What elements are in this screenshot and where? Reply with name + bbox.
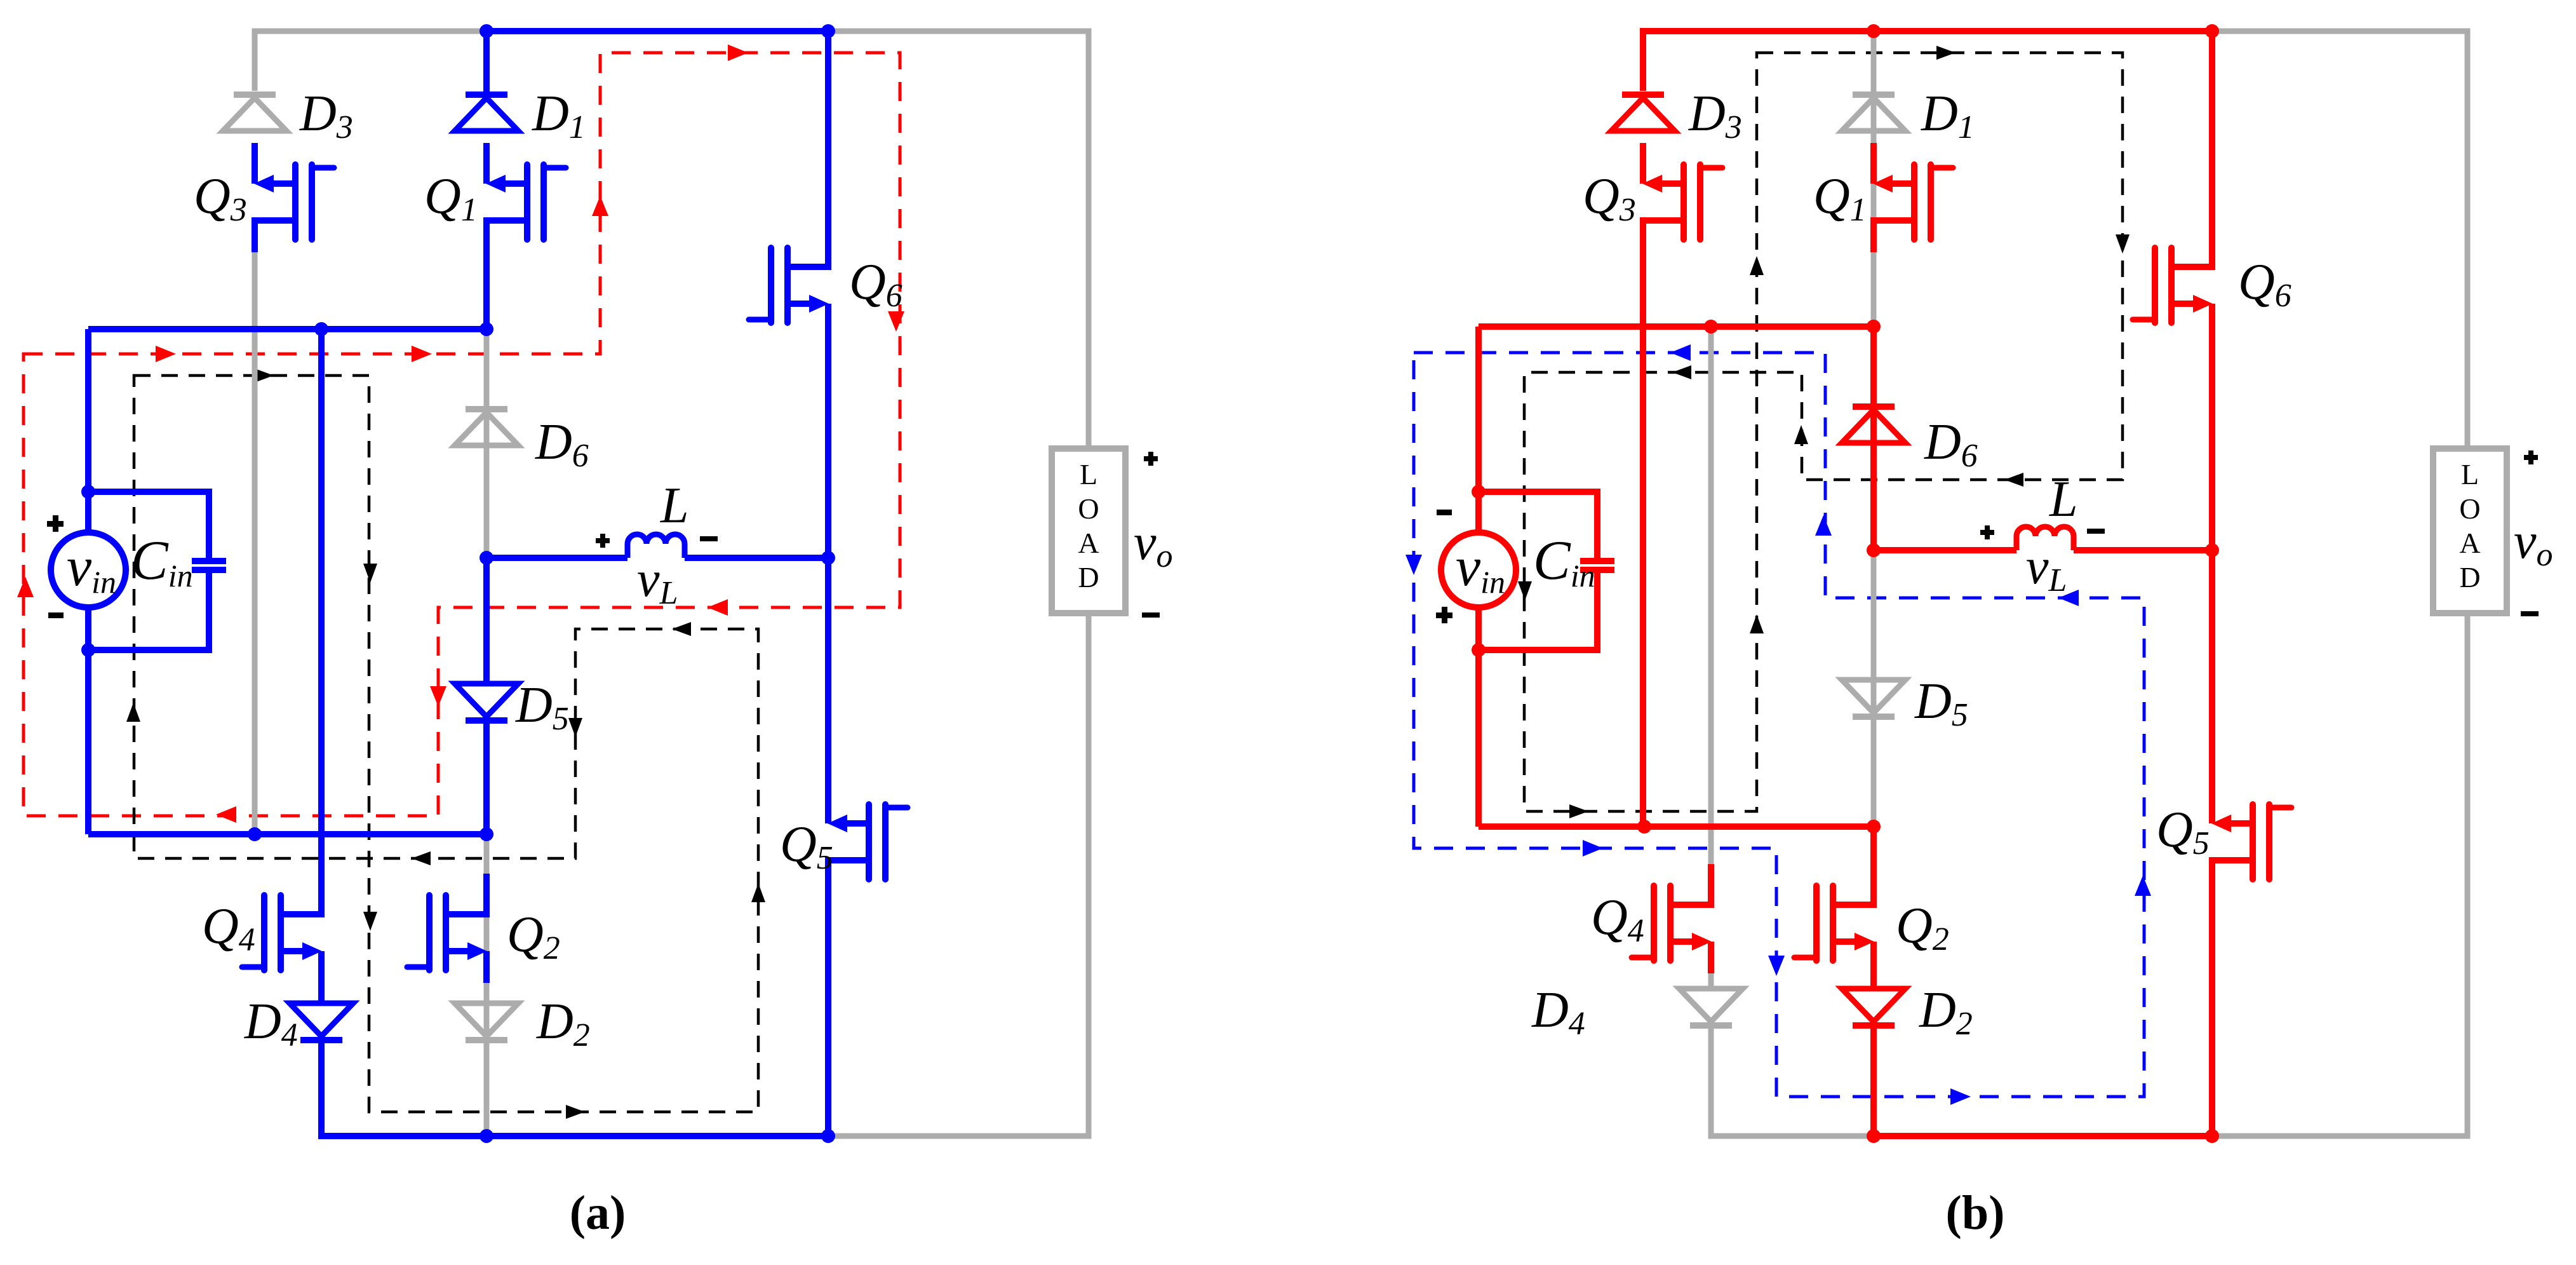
wire: gray top rail right segment to LOAD (a) xyxy=(828,31,1089,449)
diode D1 (b, inactive gray) xyxy=(1853,91,1895,98)
wire: Q6 source to L node (b) xyxy=(2209,304,2215,550)
wire: Q6 source to L node (a) xyxy=(825,304,831,558)
wire: v_in positive lead (a) xyxy=(85,329,91,532)
svg-text:D: D xyxy=(2459,561,2480,593)
node: C_in bottom junction (b) xyxy=(1472,643,1486,657)
polarity + of v_o (a) xyxy=(1144,452,1158,466)
wire: red upper bus node A (b) xyxy=(1479,323,1874,330)
wire: gray top rail right segment to LOAD (b) xyxy=(2212,31,2467,449)
transistor Q3 (b) xyxy=(1640,143,1646,184)
wire: Q2 drain from lower bus (b) xyxy=(1870,827,1877,868)
svg-text:(a): (a) xyxy=(570,1186,626,1240)
wire: gray LOAD bottom return rail (a) xyxy=(828,613,1089,1136)
wire: red top rail with corner to D3 (b) xyxy=(1643,31,2212,91)
transistor Q1 (a) xyxy=(483,143,490,184)
node: C_in bottom junction (a) xyxy=(81,643,95,657)
wire: L branch left (b) xyxy=(1874,547,2016,553)
wire: Q3 source to lower bus (b) xyxy=(1640,220,1646,827)
LOAD box (a) xyxy=(1052,449,1125,613)
node: Q6 top rail junction (b) xyxy=(2205,24,2219,38)
arrow: loop2 down beside Q4 lower xyxy=(363,912,377,931)
svg-text:O: O xyxy=(2459,492,2480,525)
svg-text:O: O xyxy=(1078,492,1099,525)
svg-text:L: L xyxy=(1080,458,1097,490)
wire: L branch left (a) xyxy=(486,555,627,561)
wire: gray Q4 drain from node A (b) xyxy=(1708,327,1714,868)
node: Q4 drain on bus (a) xyxy=(314,322,328,336)
diode D2 (b) xyxy=(1842,989,1905,1022)
arrow: loop1 right along top rail xyxy=(728,44,748,61)
arrow: loop4 right along lower bus xyxy=(1569,804,1588,818)
arrow: loop2 down beside D5 xyxy=(568,718,582,737)
current loop 1 (a): red dashed input-power path v_in-Q1-Q6-L-D5 xyxy=(23,53,900,816)
node: Q3 leg on lower bus (b) xyxy=(1637,820,1651,834)
polarity - of v_L (b) xyxy=(2087,529,2105,534)
node: L left junction (a) xyxy=(480,551,493,565)
diode D6 (a, inactive gray) xyxy=(466,406,507,412)
arrow: loop2 up beside C_in xyxy=(126,703,140,722)
arrow: loop4 right along top rail xyxy=(1936,46,1955,60)
node A: bus end at D6 (b) xyxy=(1867,320,1881,334)
wire: C_in bottom branch (a) xyxy=(88,572,209,650)
capacitor C_in plates (b) xyxy=(1580,558,1614,564)
wire: Q4 drain from node A (a) xyxy=(318,329,325,877)
transistor Q2 (a) xyxy=(483,874,490,914)
arrow: loop1 up beside Q1 xyxy=(592,196,608,216)
arrow: loop4 up toward D6 xyxy=(1794,425,1808,444)
polarity + of v_in (a) xyxy=(47,515,64,532)
diode D1 (a) xyxy=(466,91,507,98)
wire: Q5 drain from L node (b) xyxy=(2209,550,2215,787)
wire: Q6 drain from top rail (b) xyxy=(2209,31,2215,226)
wire: C_in top branch (a) xyxy=(88,492,209,560)
voltage source v_in (b) xyxy=(1441,532,1516,607)
arrow: loop3 right along lower bus xyxy=(1583,840,1603,856)
node: D2 leg bottom rail (a) xyxy=(480,1129,493,1143)
wire: v_in negative lead (a) xyxy=(85,607,91,834)
transistor Q4 (a) xyxy=(318,874,325,914)
arrow: loop2 right along bottom rail xyxy=(566,1105,585,1119)
arrow: loop1 right on node-A bus xyxy=(156,346,176,362)
svg-text:L: L xyxy=(660,478,689,534)
node: Q4 drain on bus (b) xyxy=(1704,320,1718,334)
wire: Q5 source to bottom rail (b) xyxy=(2209,860,2215,1136)
wire: gray top rail left segment with corner to D3 (a) xyxy=(255,31,486,91)
arrow: loop2 left along lower bus xyxy=(412,851,431,865)
wire: gray D1 branch top rail to node A (b) xyxy=(1871,31,1877,327)
wire: Q1 source to node A (a) xyxy=(483,220,490,329)
polarity + of v_L (a) xyxy=(596,534,610,548)
node: D1 top rail junction (a) xyxy=(480,24,493,38)
wire: red D6 branch node A to L node (b) xyxy=(1870,327,1877,550)
arrow: loop4 up beside Q3 upper xyxy=(1750,256,1764,275)
transistor Q3 (a) xyxy=(252,143,258,184)
inductor L (a) xyxy=(627,534,685,558)
wire: gray D6 branch Q1-node to L-node (a) xyxy=(484,329,490,558)
wire: blue upper bus node A (a) xyxy=(88,326,486,332)
current loop 2 (a): black dashed freewheel path Cin-Q4-D4-Q5-D5 xyxy=(134,375,758,1112)
wire: C_in bottom branch (b) xyxy=(1479,572,1597,650)
arrow: loop2 left under L xyxy=(672,622,691,636)
arrow: loop3 left under L xyxy=(2058,590,2079,606)
arrow: loop4 down beside Q6 xyxy=(2116,234,2130,254)
node: Q5 bottom rail junction (b) xyxy=(2205,1129,2219,1143)
capacitor C_in plates (a) xyxy=(192,558,226,564)
wire: gray Q3 source to lower bus (a) xyxy=(252,220,258,834)
arrow: loop1 down beside Q6 xyxy=(888,311,904,332)
voltage source v_in (a) xyxy=(51,532,126,607)
polarity + of v_in (b) xyxy=(1436,607,1452,623)
node: Q3 leg on lower bus (a) xyxy=(248,827,262,841)
wire: gray Q4 source to D4 (b) xyxy=(1708,962,1714,989)
node: L right junction (b) xyxy=(2205,543,2219,557)
arrow: loop2 right from Cin xyxy=(255,369,274,382)
diode D5 (b, inactive gray) xyxy=(1842,680,1905,713)
arrow: loop1 right toward Q1 xyxy=(412,346,432,362)
polarity + of v_o (b) xyxy=(2524,450,2538,464)
arrow: loop3 up beside Q5 xyxy=(2135,876,2151,896)
polarity - of v_in (a) xyxy=(48,612,64,618)
wire: gray D4 to bottom rail corner (b) xyxy=(1711,1025,1874,1136)
transistor Q5 (b) xyxy=(2209,783,2215,823)
svg-text:A: A xyxy=(1078,527,1099,559)
arrow: loop4 left above L xyxy=(2004,473,2023,487)
diode D5 (a) xyxy=(455,684,518,717)
diode D6 (b) xyxy=(1853,403,1895,410)
current loop 4 (b): black dashed input path v_in-Q3-D6 charge xyxy=(1524,53,2123,811)
svg-text:L: L xyxy=(2461,458,2479,490)
current loop 3 (b): blue dashed L discharge path L-D6-Q2-D2 xyxy=(1414,353,2144,1097)
svg-text:(b): (b) xyxy=(1946,1186,2005,1240)
arrow: loop3 left toward v_in xyxy=(1670,344,1691,361)
transistor Q6 (a) xyxy=(825,226,831,267)
wire: Q4 source to D4 (a) xyxy=(318,951,325,1003)
wire: gray LOAD bottom return rail (b) xyxy=(2212,613,2467,1136)
wire: Q5 source to bottom rail (a) xyxy=(825,860,831,1136)
diode D4 (a) xyxy=(290,1003,353,1036)
node: Q5 bottom rail junction (a) xyxy=(821,1129,835,1143)
polarity - of v_o (b) xyxy=(2521,611,2539,616)
wire: Q5 drain from L node (a) xyxy=(825,558,831,787)
transistor Q2 (b) xyxy=(1870,864,1877,905)
arrow: loop4 down beside C_in xyxy=(1518,581,1532,600)
arrow: loop3 right along bottom rail xyxy=(1950,1088,1971,1105)
node A: Q1 source bus end (a) xyxy=(480,322,493,336)
wire: Q2 source to D2 (b) xyxy=(1870,942,1877,989)
wire: blue top rail D1 to Q6 (a) xyxy=(486,28,828,34)
node: L left junction (b) xyxy=(1867,543,1881,557)
wire: D5 branch from L node (a) xyxy=(483,558,490,684)
wire: L branch right (a) xyxy=(685,555,828,561)
LOAD box (b) xyxy=(2433,449,2507,613)
arrow: loop1 left along lower bus xyxy=(216,806,236,823)
diode D2 (a, inactive gray) xyxy=(455,1003,518,1036)
wire: D4 to bottom rail corner (a) xyxy=(321,1040,828,1136)
diode D3 (b) xyxy=(1622,91,1664,98)
wire: D5 cathode to lower bus (a) xyxy=(483,720,490,834)
polarity - of v_o (a) xyxy=(1142,612,1160,618)
wire: v_in top lead (b) xyxy=(1475,327,1482,532)
svg-text:D: D xyxy=(1078,561,1099,593)
arrow: loop3 down beside D2 xyxy=(1768,956,1785,976)
arrow: loop1 left under L xyxy=(708,599,728,616)
node: C_in top junction (a) xyxy=(81,485,95,499)
node: D2 leg bottom rail (b) xyxy=(1867,1129,1881,1143)
wire: C_in top branch (b) xyxy=(1479,492,1597,560)
wire: L branch right (b) xyxy=(2074,547,2212,553)
transistor Q5 (a) xyxy=(825,783,831,823)
diode D4 (b, inactive gray) xyxy=(1679,989,1743,1022)
wire: red lower bus (b) xyxy=(1479,823,1874,830)
arrow: loop2 up beside Q5 xyxy=(751,883,765,902)
node: D5 lower bus end (a) xyxy=(480,827,493,841)
svg-text:A: A xyxy=(2459,527,2480,559)
wire: Q6 drain from top rail (a) xyxy=(825,31,831,226)
wire: red bottom rail (b) xyxy=(1874,1133,2212,1139)
wire: gray Q2/D2 branch lower bus to bottom rail (a) xyxy=(484,834,490,1136)
arrow: loop2 down beside Q4 upper xyxy=(363,564,377,583)
arrow: loop1 down beside D5 xyxy=(430,686,446,707)
wire: D2 to bottom rail (b) xyxy=(1870,1025,1877,1136)
node: D1 top rail junction (b) xyxy=(1867,24,1881,38)
svg-text:L: L xyxy=(2049,471,2078,527)
node: C_in top junction (b) xyxy=(1472,485,1486,499)
transistor Q4 (b) xyxy=(1708,864,1714,905)
arrow: loop4 up beside Q3 lower xyxy=(1750,614,1764,633)
polarity - of v_in (b) xyxy=(1437,510,1452,515)
arrow: loop3 down beside v_in xyxy=(1405,555,1422,575)
wire: v_in bottom lead (b) xyxy=(1475,607,1482,827)
arrow: loop3 up beside D6 xyxy=(1815,515,1832,536)
transistor Q6 (b) xyxy=(2209,226,2215,267)
transistor Q1 (b) xyxy=(1870,143,1877,184)
diode D3 (a, inactive gray) xyxy=(234,91,276,98)
wire: blue lower bus (a) xyxy=(88,831,486,837)
node: Q2 lower bus end (b) xyxy=(1867,820,1881,834)
wire: blue D1 drain lead from top rail (a) xyxy=(483,31,490,92)
node: Q6 top rail junction (a) xyxy=(821,24,835,38)
inductor L (b) xyxy=(2016,527,2074,550)
wire: gray D5 branch L node to lower bus (b) xyxy=(1871,550,1877,827)
arrow: loop1 up to v_in xyxy=(17,577,34,597)
polarity + of v_L (b) xyxy=(1980,525,1994,539)
node: L right junction (a) xyxy=(821,551,835,565)
arrow: loop4 left toward v_in xyxy=(1672,365,1691,379)
polarity - of v_L (a) xyxy=(700,536,718,541)
